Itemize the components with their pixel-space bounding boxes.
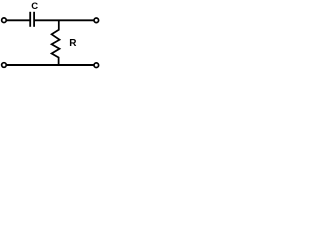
wire bottom segment [6,64,94,66]
terminal (bottom-left) [2,63,7,68]
terminal (top-right) [94,18,99,23]
capacitor C1 right plate [33,12,35,27]
resistor R1 [52,20,60,66]
svg-text:C: C [31,1,38,12]
background [0,0,100,73]
capacitor C1 left plate [29,12,31,27]
wire top-left segment [6,19,30,21]
terminal (top-left) [2,18,7,23]
wire top-right segment [35,19,94,21]
terminal (bottom-right) [94,63,99,68]
svg-text:R: R [69,38,77,49]
